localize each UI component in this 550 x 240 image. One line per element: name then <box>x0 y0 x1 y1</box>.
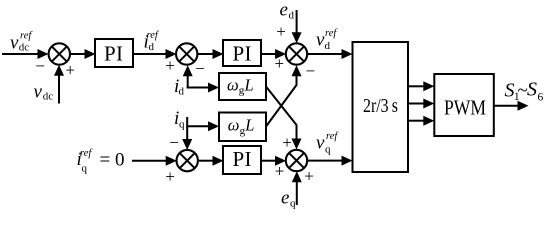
svg-text:ω: ω <box>228 116 240 135</box>
svg-text:v: v <box>10 33 19 54</box>
wire S2 to PI2 <box>197 49 223 59</box>
wire v_dc input <box>54 65 64 104</box>
label e_q <box>281 188 296 210</box>
svg-text:PWM: PWM <box>444 95 486 119</box>
label i_d^ref <box>144 30 160 53</box>
label v_dc^ref <box>10 31 33 54</box>
label e_d <box>280 0 295 22</box>
svg-text:PI: PI <box>233 147 252 171</box>
svg-text:PI: PI <box>104 41 123 65</box>
svg-text:−: − <box>169 133 179 152</box>
svg-text:6: 6 <box>538 92 544 104</box>
svg-text:−: − <box>306 61 316 80</box>
svg-text:q: q <box>290 198 296 210</box>
svg-text:d: d <box>149 41 155 53</box>
wire PI3 to S5 <box>261 156 286 166</box>
wire PI1 to S2 <box>133 49 177 59</box>
svg-text:−: − <box>35 57 45 76</box>
wire diagonal A from wgL1 to S5 <box>266 87 302 150</box>
wire 2r3s to PWM line a <box>408 81 434 91</box>
svg-text:+: + <box>275 54 285 73</box>
svg-text:+: + <box>165 167 175 186</box>
block PI2 <box>223 40 261 66</box>
block PWM <box>434 74 494 136</box>
wire S1 to PI1 <box>70 49 96 59</box>
svg-text:= 0: = 0 <box>100 150 125 171</box>
svg-text:+: + <box>65 60 75 79</box>
summing junction S2 <box>176 43 197 64</box>
label i_q^ref = 0 <box>77 148 125 175</box>
wire S4 to PI3 <box>198 156 224 166</box>
label v_d^ref <box>316 28 338 52</box>
wire diagonal B from wgL2 to S3 <box>266 65 302 126</box>
wire e_d input <box>292 10 302 43</box>
summing junction S1 <box>49 43 70 64</box>
wire i_q input with branch <box>182 117 219 150</box>
label i_q <box>174 108 185 131</box>
svg-text:L: L <box>244 75 254 94</box>
wire iqref to S4 <box>132 156 177 166</box>
wire e_q input <box>292 171 302 205</box>
wire PI2 to S3 <box>261 49 286 59</box>
wire v_dc^ref input <box>2 49 49 59</box>
block 2r3s <box>353 42 409 172</box>
label v_dc <box>34 82 54 103</box>
svg-text:dc: dc <box>43 91 54 103</box>
block PI1 <box>95 39 133 67</box>
wire S3 to 2r3s block <box>307 49 353 59</box>
label S1~S6 <box>505 79 544 104</box>
svg-text:+: + <box>282 133 292 152</box>
svg-text:d: d <box>289 10 295 22</box>
svg-text:dc: dc <box>19 42 30 54</box>
svg-text:+: + <box>275 162 285 181</box>
summing junction S3 <box>286 43 307 64</box>
svg-text:ω: ω <box>227 75 239 94</box>
svg-text:v: v <box>316 133 325 154</box>
svg-text:d: d <box>325 40 331 52</box>
summing junction S4 <box>177 150 198 171</box>
wire PWM output <box>494 101 529 111</box>
block wgL2 <box>219 113 266 142</box>
svg-text:q: q <box>179 119 185 131</box>
wire 2r3s to PWM line b <box>408 99 434 109</box>
label v_q^ref <box>316 131 339 155</box>
svg-text:+: + <box>304 167 314 186</box>
svg-text:q: q <box>82 163 88 175</box>
svg-text:e: e <box>280 0 288 21</box>
svg-text:S: S <box>527 79 537 101</box>
label i_d <box>174 76 185 98</box>
svg-text:+: + <box>276 22 286 41</box>
svg-text:v: v <box>34 82 43 103</box>
svg-text:+: + <box>165 56 175 75</box>
svg-text:−: − <box>195 59 205 78</box>
svg-text:q: q <box>325 143 331 155</box>
wire S5 to 2r3s block <box>307 156 353 166</box>
svg-text:2r/3 s: 2r/3 s <box>363 95 398 117</box>
svg-text:e: e <box>281 188 289 209</box>
svg-text:L: L <box>244 116 254 135</box>
wire i_d input with branch <box>183 65 219 92</box>
svg-text:d: d <box>179 86 185 98</box>
svg-text:PI: PI <box>233 41 252 65</box>
block wgL1 <box>219 73 266 100</box>
block PI3 <box>223 146 261 174</box>
wire 2r3s to PWM line c <box>408 116 434 126</box>
summing junction S5 <box>286 150 307 171</box>
